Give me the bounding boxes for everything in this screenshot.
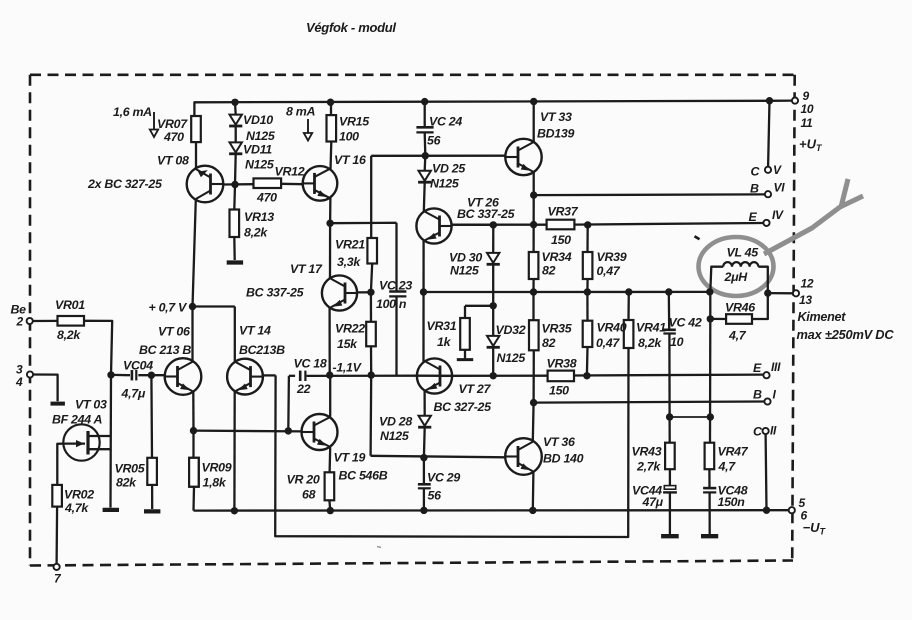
svg-text:VR47: VR47 <box>718 445 749 459</box>
svg-text:VC04: VC04 <box>123 359 153 373</box>
svg-text:BC 337-25: BC 337-25 <box>246 286 305 300</box>
svg-text:68: 68 <box>302 488 316 502</box>
svg-text:VD 25: VD 25 <box>432 162 466 176</box>
svg-text:VL 45: VL 45 <box>727 246 760 260</box>
svg-text:2: 2 <box>16 315 24 329</box>
svg-text:VR01: VR01 <box>55 298 85 312</box>
svg-text:VC 23: VC 23 <box>379 279 412 293</box>
svg-text:VD 28: VD 28 <box>379 415 412 429</box>
svg-text:VT 03: VT 03 <box>75 398 107 412</box>
svg-text:56: 56 <box>427 134 441 148</box>
svg-text:12: 12 <box>801 277 814 291</box>
svg-text:10: 10 <box>801 102 814 116</box>
svg-text:1k: 1k <box>437 335 452 349</box>
svg-text:VT 33: VT 33 <box>540 110 572 124</box>
svg-text:IV: IV <box>772 208 784 222</box>
svg-text:VT 08: VT 08 <box>157 154 189 168</box>
svg-text:VR39: VR39 <box>597 250 627 264</box>
svg-text:Végfok - modul: Végfok - modul <box>306 20 396 35</box>
svg-text:II: II <box>770 424 777 438</box>
svg-text:VT 14: VT 14 <box>239 324 271 338</box>
svg-text:VT 16: VT 16 <box>334 153 366 167</box>
svg-text:2,7k: 2,7k <box>636 460 661 474</box>
svg-text:BC 327-25: BC 327-25 <box>434 400 493 414</box>
svg-text:15k: 15k <box>337 337 358 351</box>
svg-text:100 n: 100 n <box>376 297 407 311</box>
svg-text:VR13: VR13 <box>244 210 274 224</box>
svg-text:V: V <box>773 163 782 177</box>
svg-text:VR15: VR15 <box>339 115 370 129</box>
svg-text:-1,1V: -1,1V <box>333 361 363 375</box>
svg-text:BF 244 A: BF 244 A <box>52 413 103 427</box>
svg-text:VC 18: VC 18 <box>294 357 327 371</box>
svg-text:82k: 82k <box>116 476 137 490</box>
svg-text:470: 470 <box>256 191 277 205</box>
svg-text:BC 546B: BC 546B <box>339 469 388 483</box>
svg-text:VR38: VR38 <box>547 357 577 371</box>
svg-text:VD32: VD32 <box>496 323 526 337</box>
svg-text:100: 100 <box>339 130 359 144</box>
svg-text:VD11: VD11 <box>243 143 272 157</box>
svg-text:C: C <box>751 165 761 179</box>
svg-text:BD139: BD139 <box>537 127 574 141</box>
svg-text:VR31: VR31 <box>427 319 457 333</box>
svg-text:0,47: 0,47 <box>596 336 620 350</box>
svg-text:4,7k: 4,7k <box>64 501 89 515</box>
svg-text:0,47: 0,47 <box>597 264 621 278</box>
svg-text:2x BC 327-25: 2x BC 327-25 <box>87 177 163 191</box>
svg-text:VR07: VR07 <box>157 117 188 131</box>
svg-text:VT 36: VT 36 <box>543 435 575 449</box>
svg-text:VC 24: VC 24 <box>429 115 462 129</box>
svg-text:150: 150 <box>551 233 571 247</box>
svg-text:47μ: 47μ <box>642 495 664 509</box>
svg-text:4: 4 <box>15 375 23 389</box>
svg-text:4,7μ: 4,7μ <box>121 387 146 401</box>
svg-text:N125: N125 <box>450 264 480 278</box>
svg-text:B: B <box>750 182 759 196</box>
svg-text:Kimenet: Kimenet <box>798 310 847 324</box>
svg-text:4,7: 4,7 <box>718 460 737 474</box>
svg-text:2μH: 2μH <box>724 270 749 284</box>
svg-text:III: III <box>771 360 781 374</box>
svg-text:VR09: VR09 <box>202 461 232 475</box>
svg-text:BC 213 B: BC 213 B <box>139 343 191 357</box>
svg-text:13: 13 <box>799 293 812 307</box>
svg-text:8 mA: 8 mA <box>286 105 315 119</box>
svg-text:VR35: VR35 <box>542 322 573 336</box>
svg-text:E: E <box>753 361 762 375</box>
svg-text:22: 22 <box>296 382 311 396</box>
svg-text:150n: 150n <box>718 495 746 509</box>
svg-text:BC 337-25: BC 337-25 <box>457 207 516 221</box>
svg-text:VR40: VR40 <box>597 321 627 335</box>
svg-text:VR34: VR34 <box>542 250 572 264</box>
svg-text:+ 0,7 V: + 0,7 V <box>149 301 189 315</box>
svg-text:1,8k: 1,8k <box>203 476 227 490</box>
svg-text:9: 9 <box>803 89 810 103</box>
svg-text:11: 11 <box>801 116 813 130</box>
svg-text:1,6 mA: 1,6 mA <box>113 105 152 119</box>
svg-text:N125: N125 <box>430 177 460 191</box>
svg-text:150: 150 <box>549 384 569 398</box>
svg-text:VR22: VR22 <box>335 322 365 336</box>
svg-text:8,2k: 8,2k <box>57 328 81 342</box>
svg-text:3,3k: 3,3k <box>337 255 361 269</box>
svg-text:4,7: 4,7 <box>728 329 747 343</box>
svg-text:470: 470 <box>163 130 184 144</box>
svg-text:VR41: VR41 <box>636 321 666 335</box>
svg-text:N125: N125 <box>245 158 275 172</box>
svg-text:10: 10 <box>670 335 684 349</box>
svg-text:BC213B: BC213B <box>239 343 285 357</box>
svg-text:VD 30: VD 30 <box>449 251 482 265</box>
svg-text:VR37: VR37 <box>548 205 579 219</box>
svg-text:VR02: VR02 <box>64 488 94 502</box>
svg-text:VT 06: VT 06 <box>158 325 190 339</box>
svg-text:VC 42: VC 42 <box>669 316 702 330</box>
svg-text:82: 82 <box>542 264 556 278</box>
svg-text:N125: N125 <box>497 351 527 365</box>
svg-text:82: 82 <box>542 336 556 350</box>
svg-text:8,2k: 8,2k <box>244 226 268 240</box>
svg-text:8,2k: 8,2k <box>638 336 662 350</box>
svg-text:B: B <box>753 388 762 402</box>
svg-text:VC 29: VC 29 <box>427 471 460 485</box>
svg-text:max ±250mV DC: max ±250mV DC <box>797 327 895 342</box>
svg-text:56: 56 <box>428 489 442 503</box>
svg-text:VI: VI <box>774 181 786 195</box>
svg-text:VR05: VR05 <box>115 462 146 476</box>
svg-text:BD 140: BD 140 <box>543 452 584 466</box>
svg-text:VR 20: VR 20 <box>287 473 320 487</box>
svg-text:VT 17: VT 17 <box>290 262 323 276</box>
svg-text:C: C <box>753 425 763 439</box>
svg-text:N125: N125 <box>246 129 276 143</box>
svg-text:VT 19: VT 19 <box>334 451 366 465</box>
svg-text:VD10: VD10 <box>243 113 273 127</box>
svg-text:N125: N125 <box>380 429 410 443</box>
svg-text:VR21: VR21 <box>335 238 365 252</box>
svg-text:VR12: VR12 <box>275 165 305 179</box>
svg-text:VT 27: VT 27 <box>459 382 492 396</box>
svg-text:E: E <box>749 210 758 224</box>
svg-text:VR43: VR43 <box>632 445 662 459</box>
svg-text:VR46: VR46 <box>725 301 755 315</box>
